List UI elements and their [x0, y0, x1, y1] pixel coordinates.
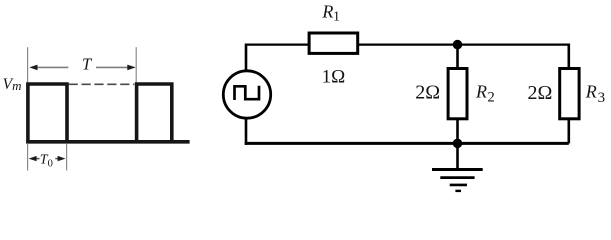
svg-text:Vm: Vm [3, 76, 22, 93]
svg-text:T: T [82, 54, 93, 73]
svg-text:R1: R1 [321, 1, 340, 24]
svg-text:T0: T0 [40, 152, 53, 169]
svg-text:2Ω: 2Ω [528, 82, 553, 104]
svg-text:R3: R3 [585, 82, 605, 107]
svg-text:2Ω: 2Ω [415, 82, 440, 104]
svg-text:1Ω: 1Ω [322, 66, 346, 87]
svg-text:R2: R2 [475, 81, 495, 105]
